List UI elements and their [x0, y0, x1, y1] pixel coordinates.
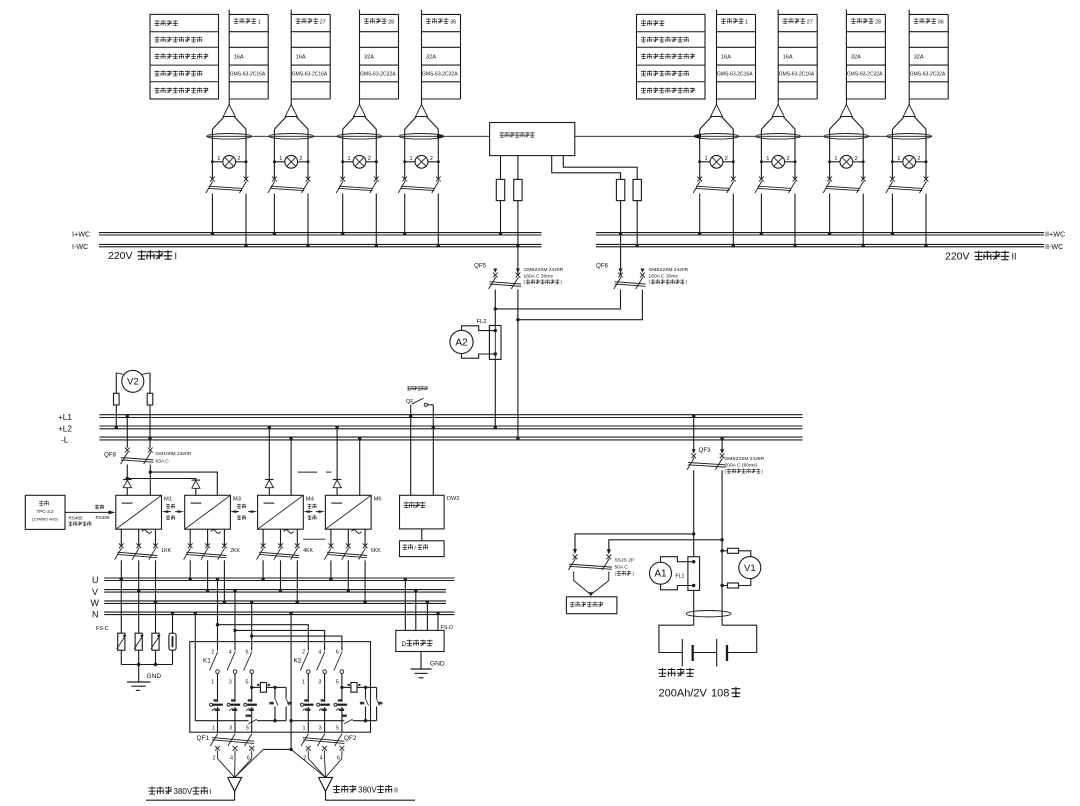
branch wire to SSJS left	[575, 534, 694, 552]
svg-text:160A C 30ms: 160A C 30ms	[649, 273, 679, 279]
bus +L2	[99, 425, 802, 427]
svg-text:GMS-63-2C32A: GMS-63-2C32A	[422, 72, 458, 78]
feeder 2 CT ellipse	[269, 134, 314, 140]
feeder 3 arrow	[840, 105, 852, 117]
feeder branch 4 column table	[908, 10, 910, 105]
relay coil K2 circuit	[340, 686, 343, 689]
breaker QF5	[493, 269, 497, 273]
svg-text:36: 36	[938, 19, 944, 25]
tie wire QF6 left pole to QF5 output	[495, 290, 620, 309]
svg-text:1: 1	[258, 19, 261, 25]
svg-text:GMS-63-2C32A: GMS-63-2C32A	[910, 72, 946, 78]
relay coil K1 circuit	[250, 686, 253, 689]
svg-text:GMS-63-2C16A: GMS-63-2C16A	[292, 72, 328, 78]
FS-C arrester 3 wire	[155, 602, 157, 633]
fuse V2 right	[147, 393, 153, 405]
FS-C arrester 1	[118, 633, 125, 650]
fuse F2	[514, 179, 522, 200]
svg-text:5: 5	[336, 680, 339, 686]
breaker SSJS 2P	[573, 555, 578, 560]
battery cells	[681, 639, 683, 667]
funnel to battery monitor	[574, 572, 591, 595]
svg-text:(ZJW801-R/G): (ZJW801-R/G)	[32, 517, 59, 522]
svg-text:QF5: QF5	[474, 263, 487, 270]
svg-text:27: 27	[320, 19, 326, 25]
feeder 1 arrow	[223, 105, 235, 117]
switch 4KK	[261, 543, 266, 548]
feeder 4 indicator lamp	[892, 161, 902, 163]
bus II-WC	[596, 243, 1044, 245]
feeder 4 CT tent	[892, 117, 904, 129]
breaker QF3	[692, 449, 696, 453]
insulation-ground detector box	[490, 123, 575, 156]
svg-text:1: 1	[897, 156, 900, 162]
wire +L1 to QF3	[693, 416, 695, 453]
svg-text:GMS-63-2C16A: GMS-63-2C16A	[779, 72, 815, 78]
feeder 1 arrow	[711, 105, 723, 117]
feeder 3 indicator lamp	[830, 161, 840, 163]
svg-text:2: 2	[855, 156, 858, 162]
svg-text:2: 2	[725, 156, 728, 162]
svg-text:32A: 32A	[851, 55, 861, 61]
QF3 right pole down wire	[721, 470, 723, 625]
svg-text:1: 1	[705, 156, 708, 162]
battery monitor box	[566, 597, 617, 614]
feeder 1 breaker	[210, 177, 215, 182]
feeder 4 CT tent	[405, 117, 417, 129]
feeder 4 breaker	[890, 177, 895, 182]
svg-text:GND: GND	[147, 673, 162, 680]
svg-text:GMB22SM 2420R: GMB22SM 2420R	[524, 267, 564, 273]
feeder 2 breaker	[759, 177, 764, 182]
bus N	[104, 611, 454, 613]
svg-text:4: 4	[229, 650, 232, 656]
legend table right	[637, 14, 706, 99]
svg-text:1: 1	[303, 726, 306, 732]
supervisor computer box	[25, 495, 65, 529]
N tap to K1 coil return	[194, 613, 196, 720]
negative feed M1	[149, 472, 151, 495]
svg-text:GMS-63-2C32A: GMS-63-2C32A	[360, 72, 396, 78]
QF8 left pole to diode rail	[126, 465, 128, 479]
svg-text:220V: 220V	[108, 250, 133, 262]
svg-text:16A: 16A	[296, 55, 306, 61]
fuse V2 left	[114, 393, 120, 405]
bus I+WC	[99, 232, 542, 234]
svg-text:1: 1	[410, 156, 413, 162]
svg-text:QF1: QF1	[197, 735, 210, 742]
branch wire to SSJS right	[609, 540, 722, 553]
svg-text:K1: K1	[203, 658, 211, 665]
feeder 3 CT tent	[343, 117, 355, 129]
svg-text:FL2: FL2	[477, 319, 487, 325]
diode module M3	[192, 479, 200, 481]
feeder 4 pole wires	[891, 129, 893, 179]
feeder 4 arrow	[903, 105, 915, 117]
svg-text:QF8: QF8	[104, 452, 117, 459]
svg-text:108: 108	[711, 688, 729, 700]
wire FL1 to battery	[693, 590, 695, 625]
svg-text:50A C: 50A C	[615, 564, 629, 570]
svg-text:II: II	[1012, 252, 1017, 262]
feeder 1 wires to DC bus	[699, 194, 701, 234]
detector fuse wires right	[552, 156, 621, 180]
svg-text:5: 5	[246, 726, 249, 732]
svg-text:3: 3	[229, 680, 232, 686]
wire QF5 right output to -L bus	[517, 320, 519, 439]
legend table left	[150, 14, 219, 99]
svg-text:160A C 30ms: 160A C 30ms	[524, 273, 554, 279]
feeder 3 indicator lamp	[343, 161, 353, 163]
silicon chain DW2 box	[400, 495, 445, 529]
rectifier module M1	[116, 495, 162, 529]
diode module M6	[336, 427, 338, 479]
feeder 4 arrow	[416, 105, 428, 117]
feeder 1 pole wires	[211, 129, 213, 179]
svg-text:QF3: QF3	[699, 447, 712, 454]
rectifier module M4	[258, 495, 304, 529]
svg-text:I+WC: I+WC	[72, 230, 90, 239]
ground symbol FS-C	[127, 681, 150, 683]
feeder 1 CT tent	[212, 117, 224, 129]
svg-text:1: 1	[211, 680, 214, 686]
svg-text:2: 2	[430, 156, 433, 162]
feeder 1 pole wires	[699, 129, 701, 179]
svg-text:2: 2	[213, 756, 216, 762]
feeder 2 pole wires	[273, 129, 275, 179]
svg-text:1KK: 1KK	[161, 548, 171, 554]
svg-text:63A C: 63A C	[156, 459, 170, 465]
FS-D earth stem	[420, 652, 422, 670]
svg-text:200A C (60ms): 200A C (60ms)	[725, 462, 758, 468]
svg-text:GMS-63-2C32A: GMS-63-2C32A	[847, 72, 883, 78]
svg-text:36: 36	[450, 19, 456, 25]
FS-D surge protector box	[396, 630, 444, 651]
source arrow QF2	[319, 777, 333, 791]
arrowhead to detector left	[437, 134, 444, 139]
battery plug ellipse	[686, 611, 731, 617]
FS-C collector wire	[121, 664, 172, 666]
feeder 3 CT ellipse	[824, 134, 869, 140]
svg-text:32A: 32A	[364, 55, 374, 61]
feeder 4 CT ellipse	[887, 134, 932, 140]
feeder 3 breaker	[340, 177, 345, 182]
svg-text:W: W	[91, 598, 100, 608]
feeder 4 wires to DC bus	[891, 194, 893, 234]
feeder 3 wires to DC bus	[829, 194, 831, 234]
svg-text:M1: M1	[164, 497, 172, 503]
svg-text:200Ah/2V: 200Ah/2V	[659, 688, 708, 700]
feeder 2 indicator lamp	[274, 161, 284, 163]
module comm arrows	[162, 510, 169, 513]
voltmeter V1	[739, 557, 761, 579]
svg-text:I: I	[175, 251, 178, 261]
svg-text:+L2: +L2	[58, 424, 72, 433]
ammeter A1	[650, 562, 672, 584]
svg-text:32A: 32A	[426, 55, 436, 61]
wire +L1 to QF8	[126, 416, 128, 448]
circuit breaker QF8	[125, 448, 130, 453]
svg-text:U: U	[92, 575, 99, 585]
svg-text:1: 1	[217, 156, 220, 162]
svg-text:V: V	[92, 587, 98, 597]
feeder branch 3 column table	[359, 10, 361, 105]
V1 fuse bottom	[722, 585, 727, 587]
svg-text:I-WC: I-WC	[72, 242, 88, 251]
svg-text:GMS-63-2C16A: GMS-63-2C16A	[230, 72, 266, 78]
svg-text:V2: V2	[127, 377, 139, 388]
feeder 3 wires to DC bus	[342, 194, 344, 234]
contactor cabinet box	[190, 642, 371, 733]
feeder 2 CT tent	[274, 117, 286, 129]
svg-text:2: 2	[211, 650, 214, 656]
svg-text:2: 2	[917, 156, 920, 162]
svg-text:6KK: 6KK	[371, 548, 381, 554]
svg-text:1: 1	[302, 680, 305, 686]
diode cathode rail to M3	[127, 479, 196, 481]
svg-text:QF: QF	[406, 399, 414, 405]
svg-text:4: 4	[320, 756, 323, 762]
wire -L to QF3	[721, 439, 723, 454]
emergency lighting label	[407, 386, 411, 390]
svg-text:SSJS 2P: SSJS 2P	[615, 558, 635, 564]
bus II+WC	[596, 232, 1044, 234]
svg-text:FS-C: FS-C	[96, 626, 109, 632]
svg-text:M3: M3	[233, 497, 241, 503]
CT signal line left group	[207, 135, 490, 137]
svg-text:2: 2	[786, 156, 789, 162]
FS-C arrester 4	[169, 633, 176, 650]
feeder branch 4 column table	[421, 10, 423, 105]
svg-text:2: 2	[299, 156, 302, 162]
feeder 3 breaker	[827, 177, 832, 182]
ground symbol FS-D	[411, 668, 432, 670]
svg-text:GMB22SM 2420R: GMB22SM 2420R	[649, 267, 689, 273]
svg-text:FL1: FL1	[676, 573, 685, 579]
svg-text:II+WC: II+WC	[1045, 230, 1065, 239]
svg-text:6: 6	[246, 650, 249, 656]
feeder 4 breaker	[402, 177, 407, 182]
feeder 3 pole wires	[829, 129, 831, 179]
feeder 4 wires to DC bus	[404, 194, 406, 234]
svg-text:RS485: RS485	[96, 515, 110, 520]
feeder 2 breaker	[272, 177, 277, 182]
feeder 2 arrow	[772, 105, 784, 117]
svg-text:1: 1	[212, 726, 215, 732]
DW2 feed wires	[410, 416, 412, 495]
svg-text:M6: M6	[374, 497, 382, 503]
arrowhead to detector right	[694, 134, 701, 139]
svg-text:DW2: DW2	[447, 496, 459, 502]
svg-text:I: I	[210, 789, 212, 796]
fuse F3	[616, 179, 624, 200]
svg-text:28: 28	[875, 19, 881, 25]
switch 6KK	[329, 543, 334, 548]
svg-text:5: 5	[336, 726, 339, 732]
rectifier module M6	[325, 495, 371, 529]
svg-text:1: 1	[745, 19, 748, 25]
svg-text:16A: 16A	[234, 55, 244, 61]
feeder branch 1 column table	[716, 10, 718, 105]
source label 380V II	[333, 785, 340, 793]
feeder 2 arrow	[285, 105, 297, 117]
svg-text:380V: 380V	[174, 787, 193, 796]
svg-text:2: 2	[237, 156, 240, 162]
shunt FL1	[688, 557, 700, 591]
feeder 2 wires to DC bus	[760, 194, 762, 234]
feeder 2 pole wires	[760, 129, 762, 179]
feeder 2 wires to DC bus	[273, 194, 275, 234]
ammeter A2	[450, 330, 473, 353]
source label 380V I	[149, 787, 156, 795]
svg-text:2KK: 2KK	[230, 548, 240, 554]
module wires to AC bus	[120, 560, 122, 579]
feeder 2 CT ellipse	[756, 134, 801, 140]
rectifier module M3	[185, 495, 231, 529]
svg-text:-L: -L	[61, 435, 69, 444]
svg-text:380V: 380V	[358, 786, 377, 795]
svg-text:RS485: RS485	[69, 515, 83, 520]
detector fuse wires left	[500, 156, 502, 180]
feeder 2 indicator lamp	[761, 161, 771, 163]
feeder 3 CT tent	[830, 117, 842, 129]
negative feed M6	[359, 439, 361, 496]
bus +L1	[99, 414, 802, 416]
phase taps to K1	[217, 579, 219, 650]
FS-C arrester 2 wire	[138, 591, 140, 633]
auto/manual box	[400, 541, 445, 557]
feeder branch 3 column table	[845, 10, 847, 105]
N branch to QF1 arrow	[263, 748, 291, 750]
feeder 1 CT ellipse	[694, 134, 739, 140]
feeder 1 wires to DC bus	[211, 194, 213, 234]
negative feed M4	[290, 439, 292, 496]
svg-text:5: 5	[246, 680, 249, 686]
svg-text:A1: A1	[654, 569, 667, 580]
feeder branch 2 column table	[777, 10, 779, 105]
svg-text:GMB22SM 2428R: GMB22SM 2428R	[725, 456, 765, 462]
battery label	[659, 668, 667, 676]
svg-text:6: 6	[336, 650, 339, 656]
feeder 1 indicator lamp	[700, 161, 710, 163]
svg-text:QF2: QF2	[344, 735, 357, 742]
FS-C arrester 4 wire	[172, 613, 174, 633]
svg-text:D: D	[402, 641, 407, 648]
N tap through cabinet	[290, 613, 292, 749]
svg-text:4: 4	[230, 756, 233, 762]
svg-text:28: 28	[388, 19, 394, 25]
FS-C arrester 2	[135, 633, 142, 650]
switch 1KK	[119, 543, 124, 548]
svg-text:27: 27	[807, 19, 813, 25]
svg-text:TPC-3.2: TPC-3.2	[36, 509, 54, 514]
QF8 right pole junction	[149, 465, 151, 473]
feeder 3 arrow	[354, 105, 366, 117]
tie wire QF6 right pole to QF5 output	[518, 290, 643, 320]
RS485 link to M1	[65, 511, 113, 513]
wire FL2 to +L2 bus	[494, 359, 496, 427]
breaker QF6	[619, 269, 623, 273]
svg-text:16A: 16A	[783, 55, 793, 61]
svg-text:A2: A2	[455, 337, 468, 348]
svg-text:+L1: +L1	[58, 413, 72, 422]
fuse F1	[496, 179, 504, 200]
CT signal line right group	[575, 135, 932, 137]
QF3 left pole down wire	[693, 470, 695, 556]
V2 fuse wire to -L and QF8	[149, 405, 151, 448]
bus I-WC	[99, 243, 542, 245]
FS-C earth stem	[138, 665, 140, 683]
svg-text:4: 4	[318, 650, 321, 656]
feeder 4 indicator lamp	[405, 161, 415, 163]
svg-text:II: II	[394, 788, 398, 795]
feeder 1 indicator lamp	[212, 161, 222, 163]
feeder 3 pole wires	[342, 129, 344, 179]
svg-text:II-WC: II-WC	[1045, 242, 1063, 251]
battery bank outline	[659, 625, 694, 652]
switch 2KK	[188, 543, 193, 548]
feeder 4 CT ellipse	[399, 134, 444, 140]
svg-text:3: 3	[318, 680, 321, 686]
svg-text:QF6: QF6	[596, 263, 609, 270]
voltmeter V2	[122, 370, 144, 392]
svg-text:4KK: 4KK	[303, 548, 313, 554]
svg-text:K2: K2	[294, 658, 302, 665]
link DW2 to mode box	[421, 529, 423, 541]
svg-text:1: 1	[834, 156, 837, 162]
feeder 1 CT tent	[700, 117, 712, 129]
svg-text:220V: 220V	[945, 251, 970, 263]
negative feed M3	[150, 472, 217, 495]
svg-text:V1: V1	[744, 563, 756, 574]
svg-text:M4: M4	[306, 497, 315, 503]
FS-C arrester 1 wire	[120, 579, 122, 633]
svg-text:N: N	[92, 609, 99, 619]
svg-text:1: 1	[766, 156, 769, 162]
svg-text:GMS-63-2C16A: GMS-63-2C16A	[717, 72, 753, 78]
feeder 1 CT ellipse	[207, 134, 252, 140]
phase branch wires to K2	[218, 625, 309, 651]
feeder 4 pole wires	[404, 129, 406, 179]
fuse F4	[633, 179, 641, 200]
module omission dashes	[298, 471, 317, 473]
diode module M4	[268, 427, 270, 479]
diode module M1	[123, 479, 131, 481]
feeder 1 breaker	[697, 177, 702, 182]
svg-text:1: 1	[348, 156, 351, 162]
FS-C arrester 3	[152, 633, 159, 650]
bus U	[104, 577, 454, 579]
feeder 3 CT ellipse	[337, 134, 382, 140]
svg-text:3: 3	[229, 726, 232, 732]
svg-text:16A: 16A	[721, 55, 731, 61]
svg-text:GND: GND	[430, 660, 445, 667]
svg-text:32A: 32A	[914, 55, 924, 61]
feeder branch 1 column table	[228, 10, 230, 105]
feeder 2 CT tent	[761, 117, 773, 129]
svg-text:2: 2	[368, 156, 371, 162]
svg-text:GM100M 2320R: GM100M 2320R	[156, 451, 192, 457]
svg-text:6: 6	[337, 756, 340, 762]
shunt FL2	[494, 309, 496, 326]
bus W	[104, 600, 446, 602]
bus V	[104, 589, 446, 591]
bus -L	[99, 436, 802, 438]
svg-text:1: 1	[279, 156, 282, 162]
svg-text:3: 3	[319, 726, 322, 732]
FS-D taps from AC bus	[404, 579, 406, 630]
V2 fuse wire to +L2	[115, 405, 117, 427]
